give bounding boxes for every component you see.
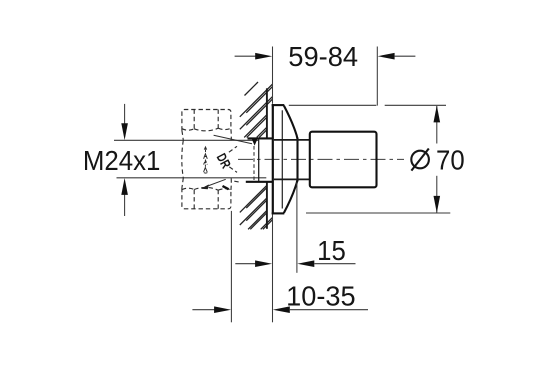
svg-text:70: 70 [436, 145, 465, 176]
flange bottom edge [272, 212, 285, 214]
extension line left (wall face) upper [272, 47, 274, 104]
dim 15 left tail [235, 263, 256, 265]
diameter 70 top extension line [289, 104, 377, 106]
nut bottom chamfer arcs [182, 187, 231, 190]
extension line wall face lower [272, 214, 274, 322]
hidden funnel upper [229, 146, 237, 152]
hidden funnel lower [229, 167, 237, 173]
diameter symbol [411, 151, 429, 169]
leader line lower [205, 179, 226, 187]
leader lower right mark [223, 186, 229, 189]
nut top hex [182, 110, 231, 131]
nut bottom hex [182, 188, 231, 209]
nut right side transition [230, 129, 232, 140]
thread line M24 upper [114, 139, 259, 141]
sealing mark triangle [252, 139, 258, 146]
dim 15 right tail [314, 263, 355, 265]
flange mounting face (thick) [272, 104, 274, 214]
flange silhouette inner line [281, 110, 283, 208]
concealed body bottom edge (thick) [246, 181, 272, 183]
dia 70 bottom arrow (down) [434, 196, 441, 213]
body front face [258, 139, 260, 181]
stem top line [274, 139, 309, 141]
leader line upper [214, 135, 252, 144]
M24 dim upper line [124, 104, 126, 124]
stem bottom line [274, 178, 309, 180]
flange cone upper slant [284, 106, 298, 139]
handle cylinder [310, 132, 377, 188]
dim 59-84 left arrow [255, 53, 272, 60]
dia 70 dim line upper [436, 106, 438, 144]
M24 lower arrow (up) [121, 178, 128, 195]
thread line M24 lower [117, 177, 267, 179]
flange cone lower slant [284, 180, 298, 213]
flange neck face [296, 138, 298, 182]
wall hatching (45 deg section lines) [240, 82, 273, 229]
dim 15 left arrow [255, 260, 272, 267]
nut top chamfer arcs [182, 128, 231, 131]
extension line right (handle end) [376, 47, 378, 106]
nut top facet lines [193, 110, 195, 129]
svg-text:59-84: 59-84 [288, 41, 358, 72]
flange top edge [272, 104, 285, 106]
dim 15 right arrow [297, 260, 314, 267]
nut side bulge left [182, 131, 184, 188]
dim 10-35 left arrow [214, 306, 231, 313]
nut right lower transition [230, 178, 232, 190]
nut bottom facet lines [193, 190, 195, 209]
M24 upper arrow (down) [121, 123, 128, 140]
wall surface line upper [266, 88, 268, 138]
dia 70 top arrow (up) [434, 105, 441, 122]
dim 59-84 right tail [395, 55, 416, 57]
dim 10-35 left tail [192, 309, 215, 311]
hidden vertical edge in body (dashed) [253, 146, 255, 180]
concealed body top edge (thick) [248, 137, 273, 139]
extension line body back [230, 211, 232, 322]
svg-text:15: 15 [317, 235, 346, 266]
leader lower arrowhead [201, 184, 209, 189]
wall surface line lower [266, 182, 268, 229]
M24 dim lower line [124, 195, 126, 217]
hex nut phantom outline (dashed) [182, 110, 241, 209]
dim 10-35 right tail [290, 309, 368, 311]
dim 10-35 right arrow [273, 306, 290, 313]
svg-text:M24x1: M24x1 [83, 145, 161, 176]
centerline (valve axis) [238, 158, 404, 160]
tiny marking column inside nut (flow symbol) [204, 146, 208, 173]
dim 59-84 left tail [235, 55, 256, 57]
svg-text:10-35: 10-35 [286, 280, 355, 311]
diameter 70 bottom extension line [306, 212, 450, 214]
dim 15 extension line (neck) [296, 183, 298, 273]
hidden dash near body lower left [234, 181, 240, 182]
dia 70 dim line lower [436, 176, 438, 213]
dim 59-84 right arrow [378, 53, 395, 60]
